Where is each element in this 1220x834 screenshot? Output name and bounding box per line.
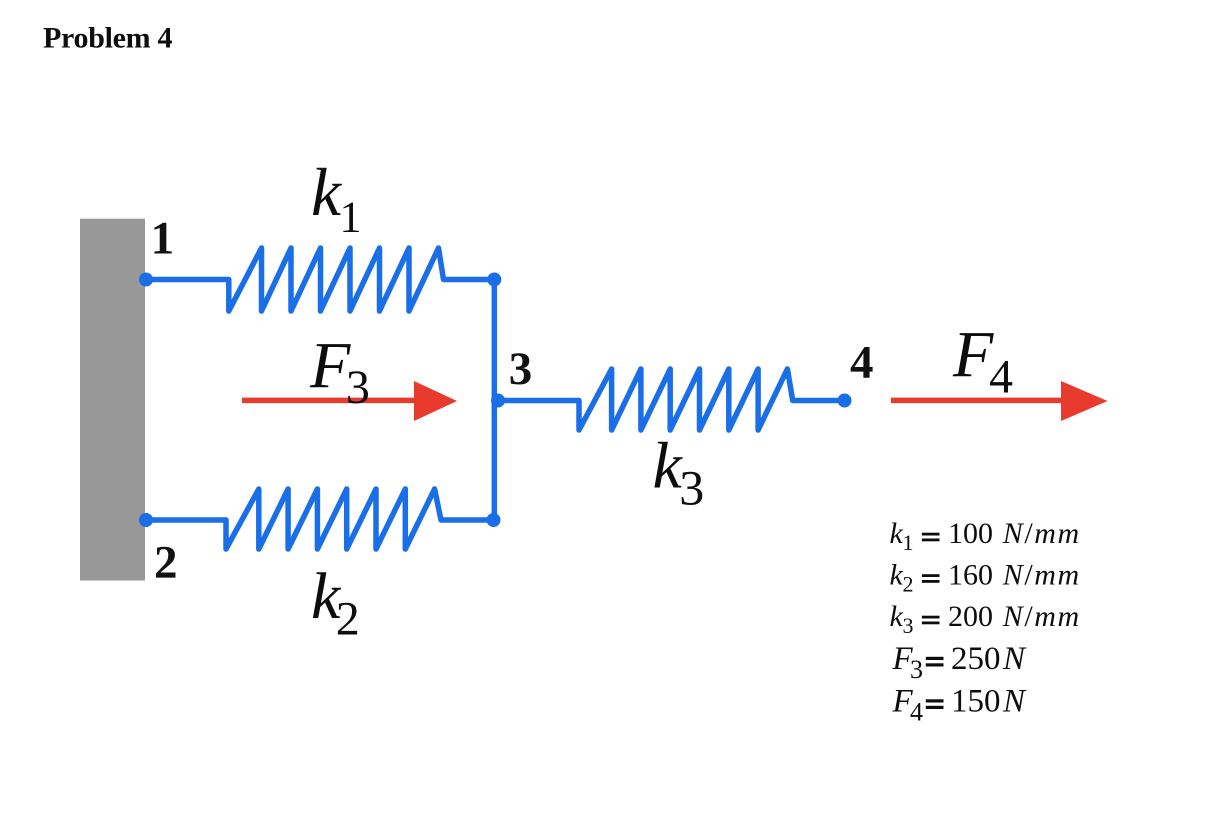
wire spring k3 to node 4 <box>793 398 845 404</box>
force arrow F4 <box>891 381 1108 421</box>
svg-text:k2: k2 <box>311 560 360 646</box>
svg-text:3: 3 <box>509 343 533 395</box>
spring k1 <box>229 248 444 311</box>
svg-text:F3250N: F3250N <box>892 641 1028 684</box>
svg-text:1: 1 <box>151 213 175 265</box>
node 1 dot <box>139 273 153 287</box>
wire spring k2 to junction <box>441 517 494 523</box>
wall support (fixed) <box>80 219 145 581</box>
svg-text:Problem 4: Problem 4 <box>43 22 173 55</box>
node 4 dot <box>838 394 852 408</box>
legend F4 value <box>892 684 1028 727</box>
svg-text:F3: F3 <box>309 330 370 414</box>
legend F3 value <box>892 641 1028 684</box>
legend k1 value <box>890 517 1081 555</box>
spring k2 <box>226 489 441 549</box>
svg-text:k1100N/mm: k1100N/mm <box>890 517 1081 555</box>
spring k3 <box>579 369 793 430</box>
svg-text:F4: F4 <box>952 319 1013 404</box>
wire vertical bus <box>492 280 498 521</box>
svg-text:k3200N/mm: k3200N/mm <box>890 600 1081 638</box>
wire node2 to spring k2 <box>146 517 226 523</box>
svg-text:2: 2 <box>154 537 178 589</box>
node junction bottom-right dot <box>487 513 501 527</box>
wire node1 to spring k1 <box>146 277 229 283</box>
svg-text:k1: k1 <box>311 155 361 242</box>
node junction top-right dot <box>487 273 501 287</box>
svg-text:k2160N/mm: k2160N/mm <box>890 559 1081 597</box>
node 3 dot <box>491 394 505 408</box>
wire spring k1 to junction <box>444 277 495 283</box>
node 2 dot <box>139 513 153 527</box>
legend k3 value <box>890 600 1081 638</box>
svg-text:4: 4 <box>850 337 874 389</box>
svg-text:k3: k3 <box>653 430 705 516</box>
legend k2 value <box>890 559 1081 597</box>
svg-text:F4150N: F4150N <box>892 684 1028 727</box>
force arrow F3 <box>242 381 457 421</box>
wire node3 to spring k3 <box>494 398 579 404</box>
